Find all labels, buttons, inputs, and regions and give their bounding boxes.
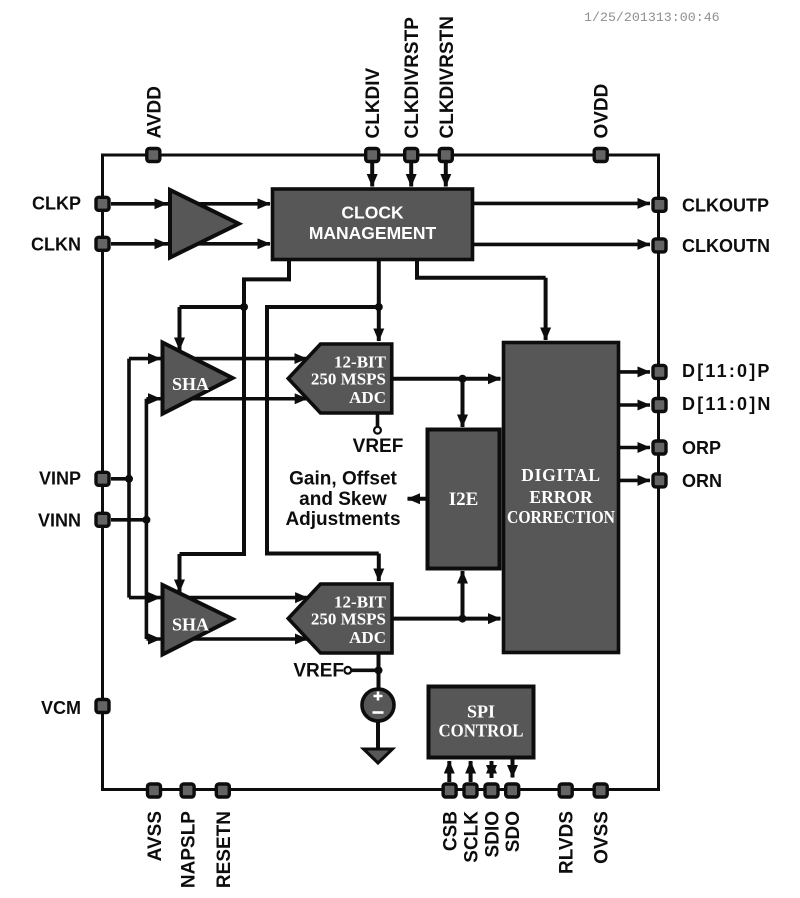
svg-text:Gain, Offset: Gain, Offset — [289, 469, 397, 490]
wire ADC2 bottom to source — [377, 653, 381, 688]
wire SHA1 bottom input to ADC1 — [146, 397, 307, 401]
svg-text:CLKN: CLKN — [31, 234, 81, 254]
wire clock branch B to ADC1 — [377, 260, 381, 342]
svg-text:SPI: SPI — [467, 702, 495, 722]
svg-text:VCM: VCM — [41, 698, 81, 718]
pin VCM — [96, 700, 109, 713]
pin NAPSLP — [181, 784, 194, 797]
svg-text:250 MSPS: 250 MSPS — [311, 610, 386, 629]
svg-text:VREF: VREF — [293, 661, 344, 682]
wire CLKDIVRSTN pin drop — [444, 162, 448, 187]
svg-text:SHA: SHA — [172, 374, 209, 394]
svg-text:CLKOUTN: CLKOUTN — [682, 236, 770, 256]
block CLOCK MANAGEMENT — [273, 189, 473, 260]
pin RESETN — [216, 784, 229, 797]
wire VINP stub — [111, 477, 129, 481]
svg-text:CSB: CSB — [441, 811, 462, 851]
svg-text:CLKDIV: CLKDIV — [363, 67, 384, 138]
pin CLKDIVRSTP — [405, 149, 418, 162]
svg-text:ADC: ADC — [349, 628, 386, 647]
svg-text:CORRECTION: CORRECTION — [507, 507, 615, 527]
wire DEC out ORP — [619, 446, 651, 450]
pin ORN — [653, 474, 666, 487]
wire VINN stub — [111, 518, 146, 522]
svg-text:AVDD: AVDD — [144, 86, 165, 138]
block DIGITAL ERROR CORRECTION — [504, 343, 619, 653]
svg-text:CLKOUTP: CLKOUTP — [682, 195, 769, 215]
wire CLKP to clock management — [111, 202, 167, 206]
svg-text:ORN: ORN — [682, 471, 722, 491]
svg-text:I2E: I2E — [449, 489, 479, 510]
pin CLKOUTP — [653, 198, 666, 211]
svg-text:SDIO: SDIO — [483, 811, 504, 857]
wire CLKDIV pin drop — [370, 162, 374, 187]
svg-text:1/25/201313:00:46: 1/25/201313:00:46 — [584, 10, 720, 25]
pin VINN — [96, 513, 109, 526]
arrowheads into SHA1 — [148, 353, 161, 364]
pin D11:0N — [653, 399, 666, 412]
pin AVDD — [147, 149, 160, 162]
wire CSB up — [447, 761, 451, 782]
svg-text:AVSS: AVSS — [145, 811, 166, 861]
wire SHA1 clock tee — [180, 305, 245, 309]
node VREF1 terminal — [374, 427, 381, 434]
svg-text:ORP: ORP — [682, 438, 721, 458]
svg-text:MANAGEMENT: MANAGEMENT — [309, 223, 437, 243]
node VINN bus junction — [142, 516, 150, 524]
svg-text:SCLK: SCLK — [462, 811, 483, 863]
pin OVDD — [594, 149, 607, 162]
pin RLVDS — [559, 784, 572, 797]
wire ADC1 output to DEC — [392, 377, 501, 381]
svg-text:VREF: VREF — [353, 436, 404, 457]
svg-text:OVSS: OVSS — [592, 811, 613, 864]
svg-text:CLKDIVRSTP: CLKDIVRSTP — [402, 17, 423, 139]
ground arrow — [364, 749, 393, 763]
wire VINP bus — [127, 359, 131, 598]
svg-text:RLVDS: RLVDS — [557, 811, 578, 874]
pin CLKDIVRSTN — [439, 149, 452, 162]
svg-text:ADC: ADC — [349, 388, 386, 407]
svg-text:CLKDIVRSTN: CLKDIVRSTN — [437, 16, 458, 138]
pin SDIO — [485, 784, 498, 797]
wire SHA2 bottom input to ADC2 — [146, 637, 307, 641]
wire clock branch C to DEC — [417, 260, 546, 278]
svg-text:Adjustments: Adjustments — [285, 509, 400, 530]
svg-text:NAPSLP: NAPSLP — [179, 811, 200, 888]
svg-text:D[11:0]N: D[11:0]N — [682, 394, 773, 414]
wire I2E adjustment arrow — [408, 497, 428, 501]
wire rise to I2E bottom — [461, 571, 465, 619]
node VREF2 junction — [375, 666, 383, 674]
pin CLKP — [96, 197, 109, 210]
svg-text:SHA: SHA — [172, 615, 209, 635]
svg-text:D[11:0]P: D[11:0]P — [682, 361, 772, 381]
pin CLKOUTN — [653, 239, 666, 252]
pin SCLK — [464, 784, 477, 797]
ADC1 block — [288, 344, 392, 413]
pin CLKDIV — [366, 149, 379, 162]
wire VREF2 horizontal — [352, 668, 379, 672]
svg-text:CLKP: CLKP — [32, 194, 81, 214]
wire CLKOUTN — [474, 243, 650, 247]
wire DEC out D[11:0]P — [619, 370, 651, 374]
wire ADC2 output to DEC — [392, 617, 501, 621]
wire CLKOUTP — [474, 202, 650, 206]
svg-text:CONTROL: CONTROL — [439, 721, 524, 741]
wire VINN bus — [145, 399, 149, 639]
op-amp SHA1 — [163, 343, 233, 414]
svg-text:RESETN: RESETN — [214, 811, 235, 888]
wire ADC2 clock branch — [267, 307, 379, 554]
buffer clock input — [170, 190, 239, 258]
wire clock branch A to SHA clock bus — [180, 260, 290, 555]
junction at SHA clock bus — [240, 303, 248, 311]
chip outline border — [103, 155, 659, 790]
svg-text:CLOCK: CLOCK — [341, 202, 404, 222]
wire DEC out D[11:0]N — [619, 403, 651, 407]
svg-text:ERROR: ERROR — [529, 487, 593, 507]
pin VINP — [96, 472, 109, 485]
block SPI CONTROL — [429, 687, 534, 758]
node ADC2 out junction — [459, 615, 467, 623]
svg-text:DIGITAL: DIGITAL — [521, 465, 600, 485]
pin SDO — [506, 784, 519, 797]
wire SDIO bidirectional — [490, 761, 494, 778]
pin CSB — [443, 784, 456, 797]
junction at ADC clock bus — [375, 303, 383, 311]
svg-text:SDO: SDO — [503, 811, 524, 852]
voltage source VREF — [362, 689, 394, 721]
block I2E — [428, 430, 500, 569]
pin D11:0P — [653, 365, 666, 378]
svg-text:VINP: VINP — [39, 468, 81, 488]
wire SHA2 top input to ADC2 — [129, 596, 308, 600]
pin AVSS — [148, 784, 161, 797]
wire SDO down — [511, 758, 515, 778]
pin ORP — [653, 441, 666, 454]
op-amp SHA2 — [163, 585, 233, 655]
svg-text:250 MSPS: 250 MSPS — [311, 370, 386, 389]
wire SHA2 clock drop — [178, 554, 182, 592]
pin CLKN — [96, 237, 109, 250]
node VINP bus junction — [125, 475, 133, 483]
wire CLKDIVRSTP pin drop — [409, 162, 413, 187]
node ADC1 out junction — [459, 375, 467, 383]
wire DEC out ORN — [619, 479, 651, 483]
ADC2 block — [288, 584, 392, 653]
svg-text:VINN: VINN — [38, 510, 81, 530]
arrowheads into SHA2 — [148, 592, 161, 603]
wire SHA1 top input to ADC1 — [129, 357, 307, 361]
pins top row — [96, 149, 666, 798]
pin OVSS — [594, 784, 607, 797]
wire SCLK up — [469, 761, 473, 782]
wire CLKN to clock management — [111, 242, 167, 246]
wire source to ground — [376, 721, 380, 749]
svg-text:and Skew: and Skew — [299, 489, 387, 510]
svg-text:OVDD: OVDD — [592, 84, 613, 139]
node VREF2 terminal — [344, 667, 351, 674]
wire drop to I2E top — [461, 379, 465, 427]
wire VREF1 stub — [376, 413, 380, 426]
